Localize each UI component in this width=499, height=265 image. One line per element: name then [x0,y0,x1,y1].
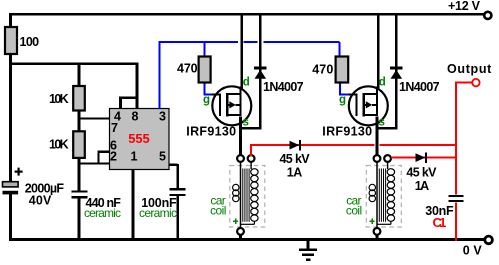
svg-text:+12 V: +12 V [448,0,481,13]
svg-text:45 kV: 45 kV [406,165,437,179]
svg-text:555: 555 [128,131,150,146]
svg-text:s: s [379,117,385,129]
svg-text:ceramic: ceramic [139,206,177,220]
svg-text:1: 1 [131,150,138,164]
svg-text:g: g [339,94,346,106]
svg-text:g: g [203,94,210,106]
svg-text:7: 7 [111,121,118,135]
svg-text:coil: coil [346,203,362,217]
svg-text:1N4007: 1N4007 [263,80,304,94]
svg-text:Output: Output [447,62,492,76]
svg-text:1A: 1A [287,166,303,180]
svg-text:100: 100 [20,35,40,49]
svg-text:C1: C1 [433,215,447,230]
svg-text:45 kV: 45 kV [280,152,311,166]
svg-text:d: d [379,76,386,88]
svg-text:IRF9130: IRF9130 [322,125,372,139]
svg-text:8: 8 [132,110,139,124]
svg-text:d: d [243,76,250,88]
svg-text:IRF9130: IRF9130 [186,125,236,139]
svg-text:10K: 10K [49,138,69,152]
svg-text:coil: coil [210,203,226,217]
svg-text:3: 3 [159,110,166,124]
svg-text:1N4007: 1N4007 [399,80,440,94]
svg-text:s: s [243,117,249,129]
svg-text:ceramic: ceramic [84,206,121,220]
svg-text:5: 5 [159,150,166,164]
svg-text:1A: 1A [415,179,430,193]
svg-text:2: 2 [110,150,117,164]
svg-text:0 V: 0 V [463,243,483,257]
svg-text:470: 470 [312,63,333,77]
svg-text:470: 470 [177,61,198,75]
svg-text:40V: 40V [29,193,52,207]
svg-text:10K: 10K [49,92,69,106]
